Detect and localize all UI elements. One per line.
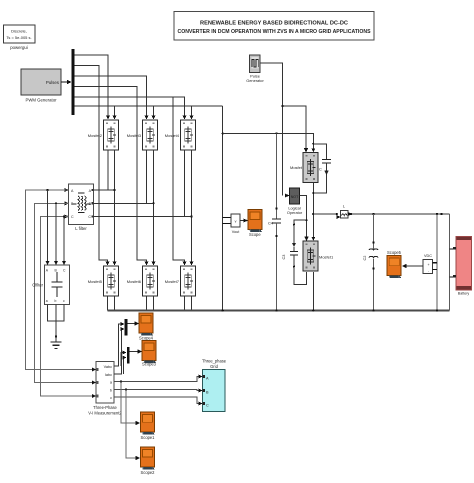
wire phase leg A series [113, 150, 117, 266]
svg-text:C: C [206, 404, 209, 408]
svg-text:C3: C3 [281, 255, 286, 260]
svg-text:b: b [110, 389, 112, 393]
svg-text:Ts = 5e-005 s.: Ts = 5e-005 s. [6, 35, 31, 40]
wire phase leg B upper tap [146, 150, 148, 203]
svg-text:Cfilter: Cfilter [32, 283, 43, 288]
capacitor C2 [362, 214, 378, 311]
wire DC top rail: bus line 6 [75, 105, 223, 107]
wire phase leg A upper tap [107, 150, 109, 190]
wire Vout to Scope [240, 218, 248, 222]
battery block [450, 237, 472, 296]
bus bar (demux) [72, 49, 75, 115]
wire phase leg C series [190, 150, 194, 266]
capacitor C snubber loop [312, 143, 331, 193]
block VDC voltage measurement [423, 254, 437, 274]
svg-text:Iabc: Iabc [105, 373, 112, 377]
svg-text:NOT: NOT [291, 195, 299, 199]
svg-text:RENEWABLE ENERGY BASED BIDIREC: RENEWABLE ENERGY BASED BIDIRECTIONAL DC-… [200, 21, 348, 27]
wire gate3 lower: branch of bus line 5 [173, 97, 185, 262]
mosfet Mosfet6 (lower row col 2) [127, 266, 158, 296]
scope Scope4 [139, 313, 154, 341]
ground symbol [51, 337, 62, 349]
wire grid phase C down to measurement input 3 [41, 217, 96, 399]
wire inductor to battery riser [351, 213, 449, 215]
block Vout measurement [223, 214, 241, 234]
svg-text:C4: C4 [268, 221, 274, 226]
wire NOT output down to lower right mosfet gate [300, 196, 309, 241]
wire dc link top line [223, 133, 314, 148]
wire measurement a to grid A [114, 375, 203, 382]
capacitor Cfilter block [32, 265, 69, 305]
svg-text:Operator: Operator [287, 210, 303, 215]
svg-text:Mosfet4: Mosfet4 [165, 133, 180, 138]
svg-text:L filter: L filter [75, 226, 87, 231]
wire phase C from L filter right to leg [94, 216, 192, 218]
L filter input port arrows [64, 188, 93, 219]
mosfet Mosfet7 (lower row col 3) [165, 266, 196, 296]
scope Scope [248, 210, 262, 238]
svg-text:Three-Phase: Three-Phase [93, 405, 117, 410]
svg-text:v: v [235, 220, 237, 224]
svg-text:C: C [319, 167, 322, 172]
wire gate1 lower: bus line 2 [75, 66, 108, 263]
wire gate2 upper: bus line 3 [75, 76, 147, 116]
junction dots on dc- rail [222, 309, 439, 311]
svg-text:Three_phase: Three_phase [202, 359, 227, 364]
svg-text:Scope4: Scope4 [139, 336, 154, 341]
svg-text:V-I Measurement2: V-I Measurement2 [88, 411, 122, 416]
wire phase leg C upper tap [184, 150, 186, 217]
wire NOT gate input arrow [285, 193, 290, 197]
svg-text:powergui: powergui [10, 45, 27, 50]
wire gate3 upper: bus line 5 [75, 97, 185, 116]
powergui block [4, 25, 36, 50]
mosfet Mosfet2 (upper row col 1) [88, 120, 119, 150]
mux Mux2 [127, 347, 130, 364]
wire tap from phase a down to Scope1 [120, 380, 140, 425]
wire PWM to bus with arrow [61, 80, 72, 84]
wire drop to Mosfet2 top-right [114, 106, 116, 116]
wire dc feed vertical from bus line 6 [222, 106, 224, 311]
svg-text:Vabc: Vabc [104, 365, 112, 369]
svg-text:Vout: Vout [232, 230, 241, 234]
svg-text:Mosfet6: Mosfet6 [127, 279, 142, 284]
wire grid phase A: L filter left down to measurement input 1 [25, 190, 96, 372]
L filter block [69, 184, 94, 231]
svg-text:C2: C2 [362, 256, 367, 261]
wire Cfilter feed c [62, 215, 66, 265]
wire drop to Mosfet4 top-right [191, 106, 193, 116]
wire drop to Mosfet3 top-right [153, 106, 155, 116]
svg-text:Scope5: Scope5 [387, 250, 402, 255]
wire taps to mux2 input a [121, 351, 127, 367]
mosfet Mosfet (right upper) [290, 153, 318, 183]
mux Mux1 [125, 319, 128, 336]
svg-text:PWM Generator: PWM Generator [25, 98, 57, 103]
wire Iabc output riser to mux1 [114, 327, 125, 374]
wire Cfilter feed b [54, 202, 58, 265]
scope Scope1 [141, 412, 156, 440]
mosfet Mosfet1 (right lower) [303, 241, 334, 271]
svg-text:Battery: Battery [458, 292, 470, 296]
wire measurement b to grid B [114, 389, 203, 393]
svg-text:b: b [55, 299, 57, 303]
wire mux2 to Scope3 [130, 349, 142, 353]
svg-text:+: + [427, 263, 429, 267]
scope Scope5 [387, 250, 402, 278]
svg-text:Scope2: Scope2 [141, 470, 156, 475]
wire DC negative rail [108, 310, 450, 312]
wire taps to mux2 input b [123, 356, 127, 375]
svg-text:CONVERTER IN DCM OPERATION WIT: CONVERTER IN DCM OPERATION WITH ZVS IN A… [178, 29, 371, 35]
svg-text:VDC: VDC [424, 254, 432, 258]
svg-text:Pulses: Pulses [46, 80, 60, 85]
wire lower mosfet bottoms to dc- rail [108, 296, 192, 311]
wire right lower mosfet drain to rail [312, 272, 314, 311]
wire output bus to battery branch [313, 213, 336, 215]
wire gate2 lower: bus line 4 [75, 87, 147, 263]
title box [174, 12, 374, 41]
logical operator NOT block [287, 188, 303, 215]
mosfet Mosfet5 (lower row col 1) [88, 266, 119, 296]
capacitor C4 [268, 132, 281, 310]
wire battery riser [449, 214, 451, 311]
svg-text:Mosfet3: Mosfet3 [127, 133, 142, 138]
wire right upper mosfet source leg down [311, 183, 315, 241]
svg-text:c: c [63, 299, 65, 303]
inductor L [336, 204, 353, 220]
mosfet Mosfet4 (upper row col 3) [165, 120, 196, 150]
scope Scope2 [141, 447, 156, 475]
wire VDC to Scope5 [402, 264, 423, 268]
wire VDC riser [436, 214, 438, 311]
svg-text:Scope3: Scope3 [142, 362, 157, 367]
svg-text:Mosfet: Mosfet [290, 165, 303, 170]
svg-text:Scope: Scope [249, 232, 261, 237]
wire Cfilter feed a [46, 189, 50, 265]
svg-text:Scope1: Scope1 [141, 435, 156, 440]
mosfet Mosfet3 (upper row col 2) [127, 120, 158, 150]
wire Vabc output riser to mux1 [114, 322, 125, 366]
svg-text:Discrete,: Discrete, [11, 29, 27, 34]
svg-text:C: C [88, 215, 91, 219]
wire phase A from L filter right to leg [94, 189, 115, 191]
svg-text:Mosfet5: Mosfet5 [88, 279, 103, 284]
PWM Generator block [21, 69, 61, 103]
block Three-Phase V-I Measurement2 [88, 362, 122, 416]
svg-text:Mosfet2: Mosfet2 [88, 133, 103, 138]
wire measurement c to grid C [114, 397, 203, 406]
wire pulse generator output [260, 63, 283, 196]
wire mux1 to Scope4 [127, 321, 139, 325]
wire Cfilter bottom bracket [48, 305, 65, 338]
capacitor C3 loop [281, 219, 308, 284]
wire phase B from L filter right to leg [94, 202, 154, 204]
wire grid phase B down to measurement input 2 [35, 203, 97, 384]
block Three_phase Grid [202, 359, 227, 412]
svg-text:Mosfet1: Mosfet1 [319, 255, 334, 260]
svg-text:Mosfet7: Mosfet7 [165, 279, 180, 284]
scope Scope3 [142, 341, 157, 367]
svg-text:C: C [71, 215, 74, 219]
svg-text:Generator: Generator [246, 78, 264, 83]
svg-text:Grid: Grid [210, 364, 218, 369]
block Pulse Generator [246, 55, 264, 83]
wire gate1 upper: bus line 1 [75, 55, 109, 116]
wire phase leg B series [152, 150, 156, 266]
wire branch to right mosfet gate [281, 105, 308, 152]
wire tap from phase b down to Scope2 [125, 388, 140, 460]
svg-text:c: c [110, 396, 112, 400]
svg-text:a: a [46, 299, 48, 303]
